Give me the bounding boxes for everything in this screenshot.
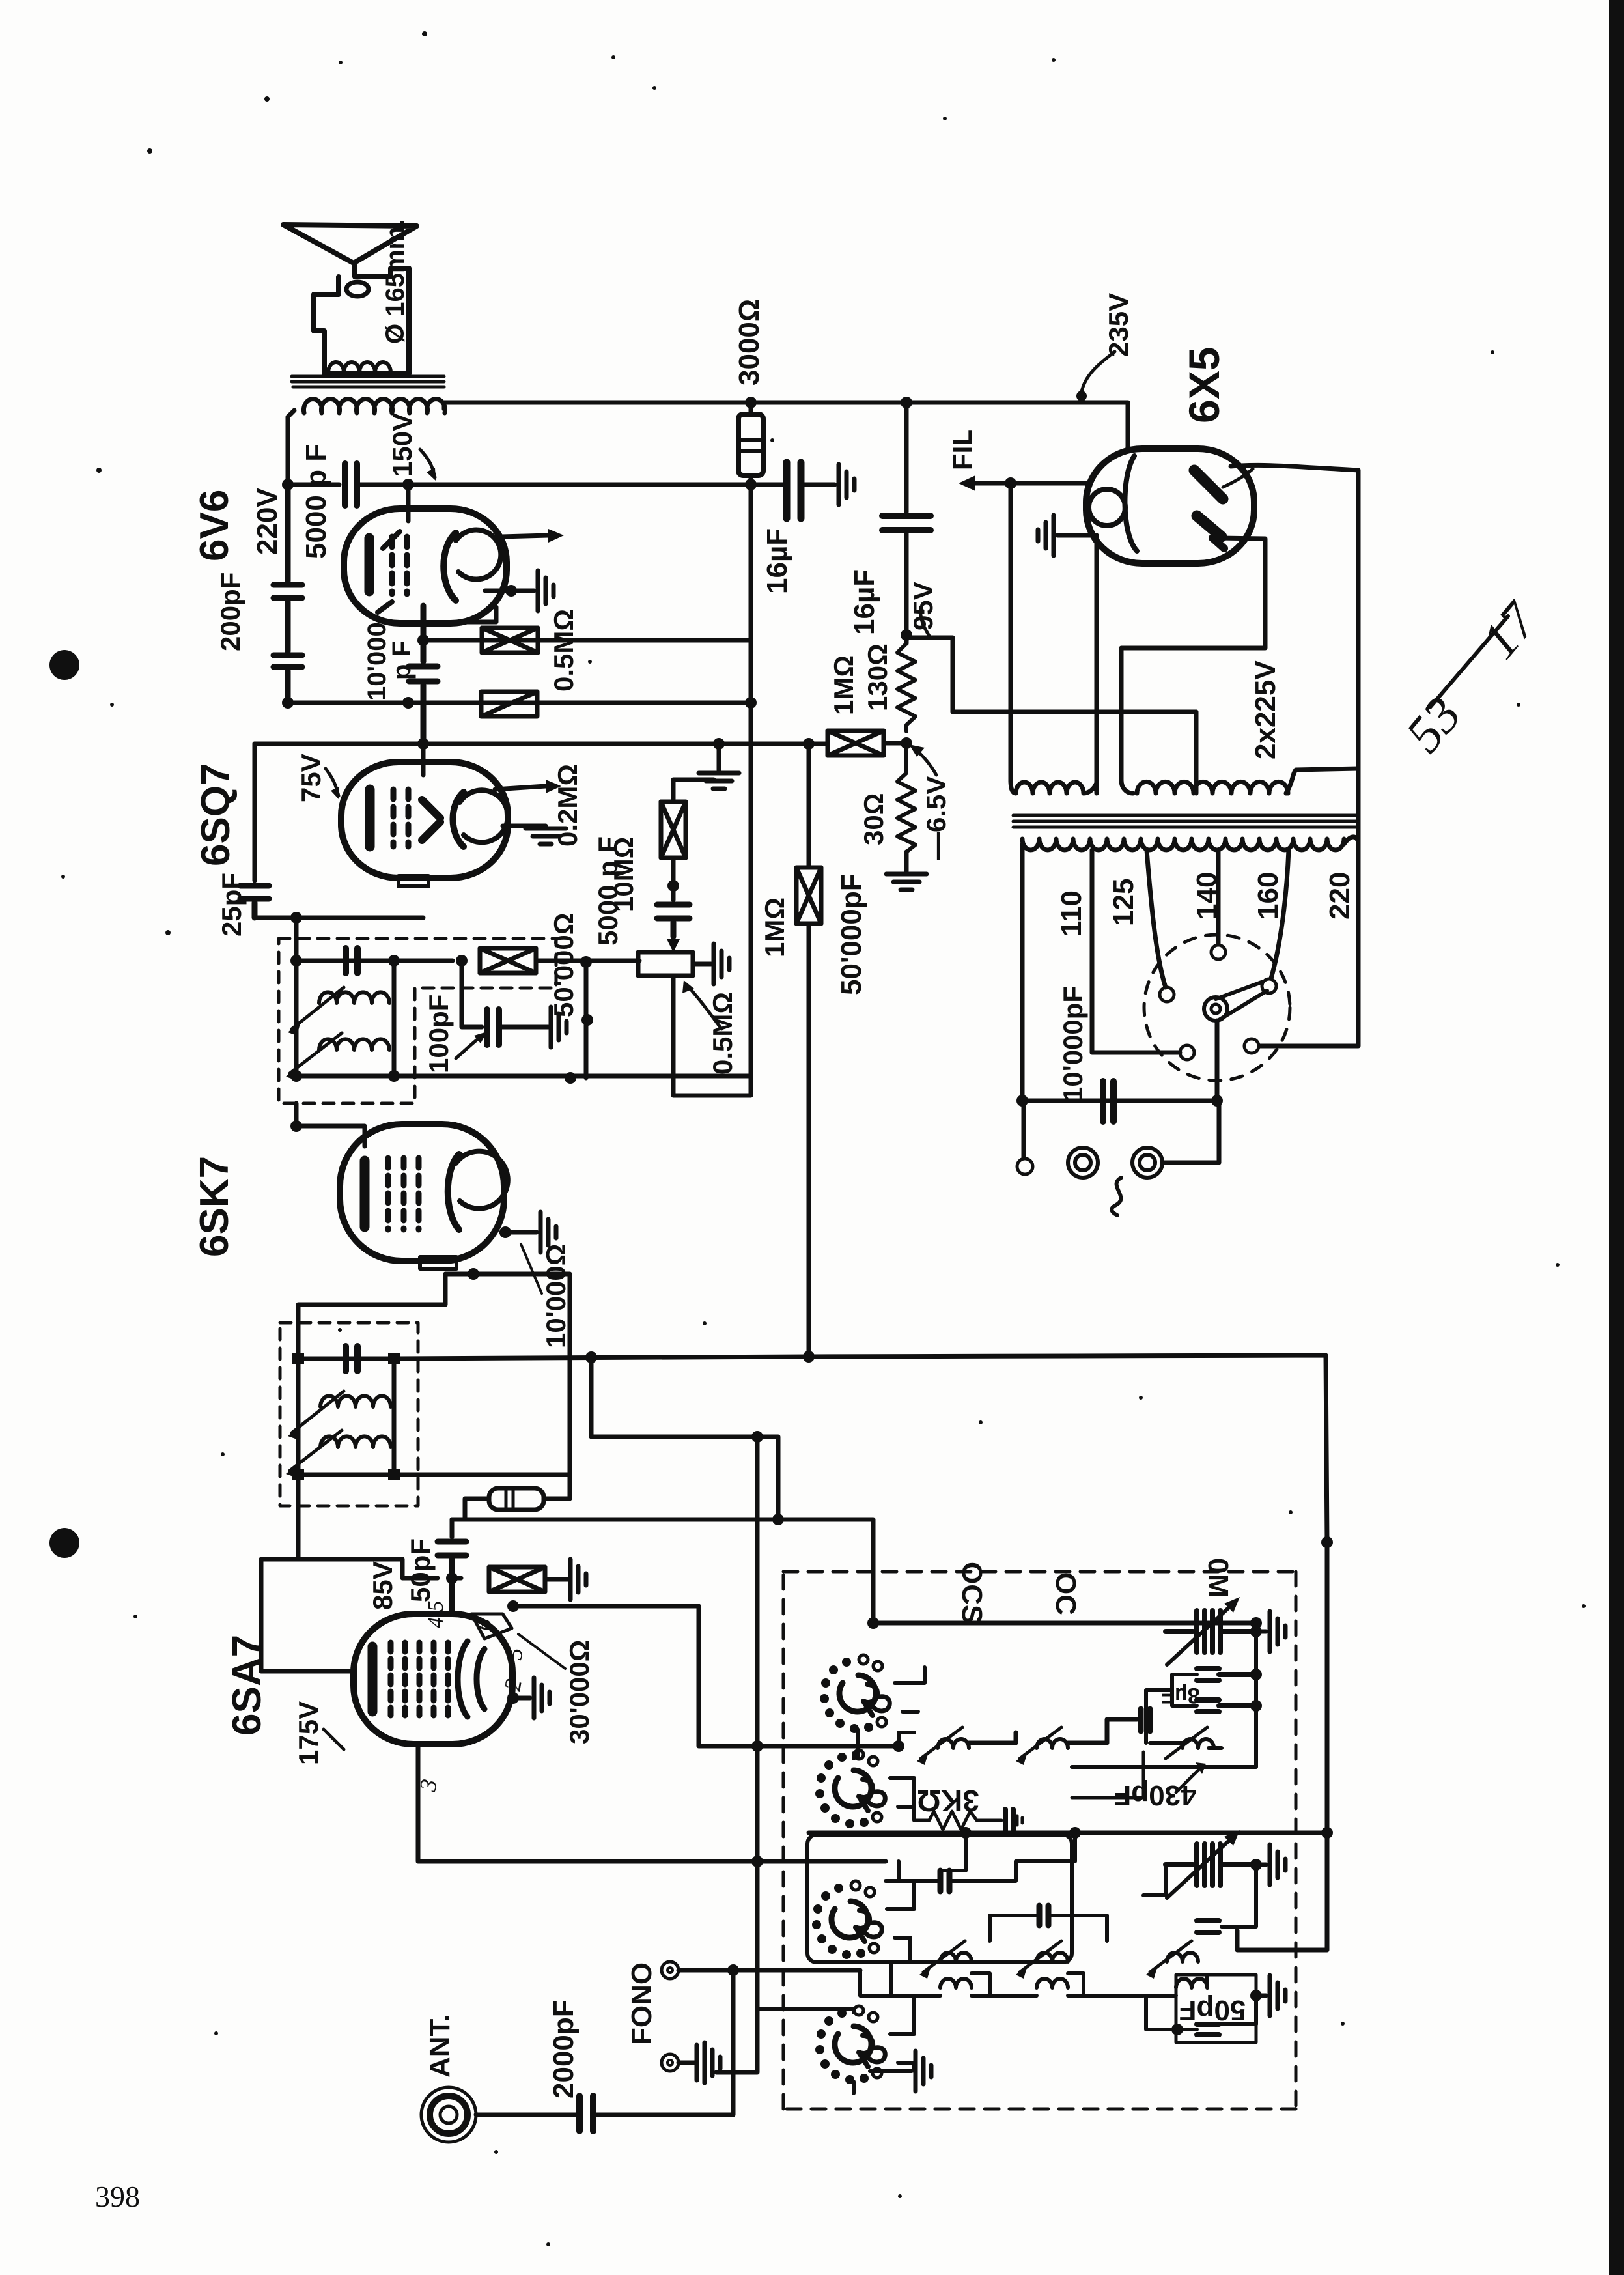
node 1409: [290, 912, 302, 924]
tube 6SQ7 plate: [453, 792, 464, 847]
wire tap 160: [1271, 850, 1289, 978]
speaker LS1 magnet frame: [314, 264, 409, 374]
svg-text:1MΩ: 1MΩ: [828, 655, 859, 715]
terminal ANT mid: [430, 2096, 468, 2134]
tube 6SQ7 tab: [399, 876, 428, 886]
tube 6SK7 anode ring: [456, 1152, 508, 1209]
tube 6SQ7 envelope: [341, 762, 508, 878]
trimmer caps 430 stack 2: [1197, 1700, 1256, 1712]
node bias top: [901, 629, 912, 641]
wire IF2 bottom to AF line: [394, 1074, 751, 1079]
speaker LS1 cone: [283, 225, 417, 263]
capacitor IF2 top: [346, 948, 357, 973]
wire 5000pF to 3000 node: [357, 483, 788, 487]
resistor 130 zigzag: [897, 643, 916, 731]
wire tuner mesh c: [733, 1970, 891, 2013]
node 10M bottom: [667, 880, 679, 892]
svg-text:50'000Ω: 50'000Ω: [548, 913, 579, 1017]
capacitor 5000pF AF: [657, 905, 690, 937]
wire pot to ground: [693, 962, 711, 967]
node IF2 br: [388, 1070, 400, 1082]
wire wafer1 stubs: [895, 1667, 925, 1712]
svg-text:6X5: 6X5: [1180, 347, 1228, 423]
node pot branch bottom: [565, 1072, 576, 1084]
tube 6X5 plate 1: [1194, 470, 1223, 499]
capacitor 200pF: [273, 485, 302, 703]
transformer T2 mains winding: [1022, 839, 1344, 850]
wire wafer4 stubs: [890, 1996, 914, 2071]
svg-text:5000 p F: 5000 p F: [593, 836, 623, 946]
wire plate2 to HV: [1121, 538, 1265, 782]
svg-text:50'000pF: 50'000pF: [835, 873, 867, 995]
wire 6X5 ground stub: [1057, 533, 1097, 538]
wire coupling y2333: [452, 1519, 873, 1623]
wire 6X5 cathode left: [1011, 481, 1089, 486]
wire tuner mesh a: [899, 1833, 1075, 1881]
output transformer T1 core: [292, 376, 444, 387]
arrow coil A: [921, 1727, 962, 1759]
svg-text:100pF: 100pF: [423, 995, 454, 1073]
svg-text:398: 398: [95, 2180, 140, 2213]
capacitor mixer grid: [940, 1871, 949, 1891]
wire IF2 sec top to 50000 resistor: [394, 959, 453, 963]
tube 6SQ7 heater arrow: [495, 786, 546, 789]
wire 16uF2 bottom: [904, 530, 909, 643]
resistor 0.5M diag: [481, 692, 537, 716]
wire HV right end: [1286, 769, 1358, 793]
tube 6SQ7 grid: [393, 789, 408, 847]
wire AVC bus y1142: [255, 742, 827, 746]
wire HV center tap: [1194, 712, 1199, 793]
node OCS end: [1250, 1617, 1262, 1629]
capacitor 16uF filter2: [882, 516, 931, 530]
svg-text:125: 125: [1108, 879, 1140, 926]
wire tuner mesh b: [891, 1962, 1143, 1996]
wire 50000 to pot top: [536, 959, 639, 963]
wire volume top vertical: [807, 744, 811, 866]
node OCS left: [867, 1617, 879, 1629]
svg-text:110: 110: [1056, 890, 1087, 937]
svg-text:0.2MΩ: 0.2MΩ: [552, 764, 583, 847]
wire pot branch down: [584, 962, 589, 1078]
wire 30000 to ground: [545, 1577, 568, 1582]
node IF1 tr: [388, 1353, 400, 1364]
wire screen to right: [513, 1606, 899, 1746]
resistor 10M: [673, 780, 714, 799]
switch wafer S1c: [812, 1881, 882, 1959]
ground 6V6 cathode: [538, 571, 553, 611]
node 6SK7 cathode: [468, 1268, 479, 1280]
coil band A2 sec: [940, 1979, 972, 1988]
wire 6SA7 anode ground: [513, 1696, 530, 1701]
coil osc B primary: [1037, 1739, 1068, 1748]
wire ANT to cap: [476, 2113, 576, 2117]
node ANT joins: [727, 1964, 739, 1976]
svg-text:200pF: 200pF: [215, 572, 245, 651]
arrow coil B: [1020, 1727, 1061, 1759]
wire wafer2 stubs: [890, 1778, 914, 1820]
arrow IF1 secondary: [290, 1430, 342, 1471]
tube 6X5 plate 2: [1197, 516, 1222, 537]
ground pot: [714, 944, 729, 984]
node IF2 tl: [290, 955, 302, 967]
coil band B2 sec: [1037, 1979, 1068, 1988]
coil osc C primary: [1183, 1739, 1214, 1748]
node AVC ground: [713, 738, 725, 750]
node 3000 top: [745, 397, 757, 408]
capacitor 10000pF mains: [1103, 1081, 1113, 1122]
dashed box tuner unit: [783, 1572, 1296, 2109]
resistor 30000: [489, 1567, 545, 1592]
wire AF vertical x1153: [673, 485, 751, 1095]
wire mixer cap: [886, 1861, 1016, 1881]
wire wafer1 drop: [854, 1730, 858, 1759]
node OM b: [1250, 1669, 1262, 1680]
wire right drop x2088: [1259, 470, 1358, 1046]
svg-text:30'000Ω: 30'000Ω: [564, 1640, 595, 1744]
tube 6SK7 envelope: [340, 1124, 504, 1261]
tube 6V6 cathode: [365, 538, 374, 591]
node IF2 tr: [388, 955, 400, 967]
node crossing x1163: [751, 1740, 763, 1752]
wire B+ into 6X5: [1126, 403, 1130, 451]
node 2368: [1321, 1536, 1333, 1548]
wire 1M vert down to bus: [807, 925, 811, 1357]
resistor 0.5M grid leak: [482, 628, 538, 653]
switch wafer S1b: [815, 1750, 885, 1828]
punch mark upper: [49, 650, 79, 680]
node pot branch top: [580, 956, 592, 968]
node 16uF2 top: [901, 397, 912, 408]
wire IF1 top: [298, 1357, 394, 1361]
capacitor 50pF tuner: [1197, 2024, 1219, 2035]
arrow 95V: [921, 607, 930, 637]
svg-text:30Ω: 30Ω: [858, 793, 889, 845]
switch wafer S1d: [815, 2006, 885, 2084]
wire tap 140: [1216, 850, 1221, 944]
box oscillator coils rounded: [807, 1835, 1072, 1962]
wire CT link: [906, 638, 1196, 712]
wire tap 110: [1092, 850, 1180, 1053]
node OM c: [1250, 1700, 1262, 1712]
svg-text:16µF: 16µF: [848, 569, 880, 635]
contact 160: [1262, 979, 1276, 993]
wire IF2 top: [296, 918, 394, 961]
node bus end: [745, 697, 757, 709]
svg-text:235V: 235V: [1103, 293, 1134, 357]
capacitor 3K end: [1005, 1809, 1013, 1831]
wire IF2 bottom: [296, 961, 394, 1076]
svg-text:0M: 0M: [1202, 1558, 1234, 1598]
wire 6SQ7 box left to 6SK7 grid: [296, 1103, 365, 1146]
wire mains right hook: [1344, 837, 1358, 844]
svg-text:25pF: 25pF: [216, 873, 247, 937]
svg-text:6SQ7: 6SQ7: [193, 763, 238, 866]
line annotation 10000: [521, 1244, 542, 1293]
terminal ANT inner: [440, 2106, 457, 2123]
tube 6V6 heater arrow: [501, 535, 548, 537]
contact 110: [1180, 1045, 1194, 1060]
capacitor pad B: [1141, 1709, 1150, 1731]
ground 16uF1: [839, 464, 854, 505]
contact 125: [1160, 987, 1174, 1002]
node FIL: [1005, 477, 1016, 489]
trimmer OC: [1166, 1844, 1252, 1886]
wire mid2: [990, 1915, 1107, 1941]
node y2333: [772, 1514, 784, 1525]
wire 6V6 cathode to ground: [485, 589, 534, 593]
wire 6SK7 suppressor ground: [501, 1230, 537, 1235]
line annotation 30000: [518, 1634, 565, 1669]
node z-tap: [585, 1351, 597, 1363]
ground AVC: [717, 744, 721, 770]
node IF2 bl: [290, 1070, 302, 1082]
wire B+ from transformer to 6X5 plate: [444, 403, 1128, 409]
svg-text:50pF: 50pF: [405, 1538, 436, 1602]
transformer T2 heater winding: [1011, 780, 1097, 793]
box 430 outline: [1072, 1752, 1143, 1798]
tube 6X5 heater curve: [1125, 456, 1137, 551]
wire FIL arrow: [968, 481, 1089, 486]
wire long vertical x1163: [716, 1437, 757, 2072]
wire heater right leg: [1095, 535, 1099, 793]
svg-text:220V: 220V: [251, 488, 283, 555]
arrow band A2: [923, 1941, 965, 1972]
resistor 3000 body: [738, 414, 763, 475]
wire 16uF2 column: [904, 403, 909, 512]
squiggle coil C: [1150, 1743, 1222, 1748]
punch mark lower: [49, 1528, 79, 1558]
tube 6V6 internal leads: [378, 531, 400, 612]
ground 6SQ7: [525, 828, 566, 844]
node 6V6 cathode: [505, 585, 517, 597]
svg-text:6V6: 6V6: [192, 490, 237, 561]
capacitor IF1 top: [346, 1346, 357, 1371]
svg-text:p F: p F: [387, 641, 416, 680]
tube 6SA7 anode arcs: [458, 1641, 484, 1717]
wire hub down: [1215, 1021, 1220, 1101]
coil ant C primary: [1167, 1953, 1198, 1962]
arrow 430pF: [1176, 1769, 1199, 1792]
capacitor 5000pF: [345, 464, 357, 505]
trimmer OM: [1166, 1611, 1252, 1652]
wire AF bus y1079: [288, 701, 751, 705]
wire 6V6 plate lead: [406, 485, 411, 521]
wire 100pF: [462, 961, 482, 1027]
wire 3000 leads: [749, 403, 753, 485]
node 3000 bottom: [745, 479, 757, 490]
svg-text:Ø 165mm.: Ø 165mm.: [381, 219, 410, 344]
svg-text:6SA7: 6SA7: [225, 1635, 270, 1736]
ground 6SK7: [540, 1212, 556, 1252]
arrow 100pF: [456, 1037, 481, 1058]
svg-text:0.5MΩ: 0.5MΩ: [707, 992, 738, 1075]
node 50pF: [1171, 2024, 1183, 2035]
tube 6V6 tab: [462, 607, 496, 622]
terminal ANT outer: [421, 2087, 476, 2142]
arrow trimmer OC: [1167, 1837, 1233, 1898]
transformer T2 HV winding 2x225V: [1121, 780, 1288, 793]
switch wafer S1a: [820, 1655, 889, 1733]
wire 430 left column: [1146, 1674, 1197, 1743]
svg-text:50pF: 50pF: [1179, 1994, 1246, 2026]
tube 6SK7 tab: [420, 1257, 456, 1269]
svg-text:160: 160: [1252, 872, 1284, 920]
node x1242: [803, 738, 815, 750]
wire mains left leg: [1020, 844, 1025, 1101]
svg-text:6SK7: 6SK7: [192, 1156, 237, 1257]
tube 6SK7 cathode: [360, 1161, 370, 1227]
wire grid lead 6SQ7: [421, 744, 426, 775]
transformer T2 core: [1013, 815, 1356, 827]
handwriting 53/17 slash: [1430, 616, 1508, 707]
wire IF1 fb: [394, 1473, 570, 1477]
svg-text:OCS: OCS: [956, 1562, 988, 1624]
node z2: [751, 1431, 763, 1443]
arrow 0.5M pot: [689, 987, 721, 1029]
svg-text:140: 140: [1191, 872, 1223, 920]
wire 6SK7 plate Z: [591, 1357, 778, 1519]
arrow 235V: [1082, 352, 1115, 392]
coil IF2 secondary: [319, 1039, 389, 1050]
dashed box IF transformer 1: [280, 1323, 418, 1506]
wire B bus y2083: [394, 1355, 1327, 1832]
capacitor 50pF: [438, 1542, 466, 1610]
node g50: [1250, 1990, 1262, 2001]
resistor 1M horizontal: [828, 731, 884, 756]
arrow 150V: [420, 449, 435, 477]
node 5000pF left: [282, 479, 294, 490]
node osc crossing: [751, 1856, 763, 1867]
wire 6SQ7 grid loop: [253, 744, 257, 881]
dashed box IF transformer 2: [279, 939, 556, 1103]
output transformer T1 primary coil: [304, 399, 445, 413]
wire OM column: [1072, 1622, 1256, 1767]
wire IF1 left down: [261, 1475, 402, 1671]
arrow IF2 secondary core: [290, 1033, 342, 1073]
wire 16uF1: [751, 483, 835, 487]
tube 6SQ7 cathode: [365, 789, 375, 847]
tube 6X5 plate 2 tail: [1212, 538, 1224, 548]
arrow coil C: [1166, 1727, 1207, 1759]
rotary switch dashed circle: [1144, 935, 1290, 1081]
node osc c: [1321, 1827, 1333, 1839]
resistor 30 zigzag: [897, 743, 916, 852]
tube 6SK7 grids: [388, 1158, 419, 1230]
wire 10M to 5000pF: [671, 860, 676, 900]
node IF1 br: [388, 1469, 400, 1480]
node plug right: [1211, 1095, 1223, 1107]
wire coil B link: [1068, 1719, 1137, 1743]
svg-text:FONO: FONO: [626, 1962, 658, 2045]
contact 140: [1211, 945, 1225, 959]
node 100pF tap: [456, 955, 468, 967]
speaker LS1 coil: [328, 362, 391, 373]
svg-text:130Ω: 130Ω: [862, 643, 893, 711]
wire 6SK7 avc feedback: [473, 1274, 570, 1475]
wire heater drop: [1009, 483, 1013, 782]
svg-text:OC: OC: [1050, 1572, 1082, 1615]
symbol AC squiggle: [1112, 1178, 1121, 1215]
svg-text:1MΩ: 1MΩ: [759, 897, 790, 957]
svg-text:85V: 85V: [367, 1561, 398, 1610]
ground OC: [1256, 1863, 1266, 1867]
arrowhead FIL: [959, 475, 975, 491]
wire wafer3 stubs: [887, 1881, 923, 1962]
ground 6X5: [1038, 515, 1054, 556]
coil band B2: [1037, 1953, 1068, 1962]
tube 6SK7 plate: [448, 1154, 459, 1230]
node bias mid: [901, 737, 912, 749]
terminal plug pin A: [1068, 1148, 1098, 1178]
node 6SA7 screen: [507, 1600, 519, 1612]
svg-text:—6.5V: —6.5V: [921, 776, 951, 860]
wire OC link: [1143, 1865, 1256, 1927]
trimmer caps 430 stack 1: [1197, 1669, 1256, 1680]
tube 6SA7 envelope: [354, 1614, 512, 1744]
ground 30000: [570, 1559, 586, 1600]
node OC: [1250, 1859, 1262, 1871]
node OM: [1250, 1626, 1262, 1637]
svg-text:3000Ω: 3000Ω: [733, 299, 765, 386]
svg-text:16µF: 16µF: [761, 528, 793, 594]
ground OM: [1256, 1630, 1266, 1634]
node plug left: [1016, 1095, 1028, 1107]
node pot branch mid: [581, 1014, 593, 1026]
label pin 6 flag: [471, 1614, 512, 1639]
ground 6SA7 anode: [534, 1678, 550, 1718]
capacitor 25pF: [240, 886, 269, 918]
switch wiper arm: [1216, 982, 1267, 1020]
node 6SA7 grid: [446, 1572, 458, 1584]
tube 6SA7 grids: [391, 1643, 448, 1716]
coil osc A primary: [938, 1739, 969, 1748]
arrow IF1 primary: [292, 1391, 344, 1433]
svg-text:175V: 175V: [293, 1701, 324, 1765]
svg-text:ANT.: ANT.: [424, 2014, 456, 2078]
capacitor 10000pF cathode: [409, 606, 438, 744]
tube 6SA7 cathode: [368, 1646, 378, 1712]
wire coil A link: [969, 1732, 1016, 1743]
wire plate node: [288, 483, 339, 487]
node 6V6 plate: [402, 479, 414, 490]
tube 6V6 envelope: [344, 509, 507, 623]
terminal FONO2: [662, 2054, 679, 2071]
stub 3K ground: [1017, 1816, 1022, 1825]
resistor 3K zigzag: [914, 1811, 1001, 1830]
node IF1 bl: [292, 1469, 304, 1480]
coil IF2 primary: [319, 992, 389, 1003]
ground bias: [904, 852, 909, 871]
node 6V6 grid: [417, 634, 429, 646]
capacitor OC pad: [1197, 1921, 1219, 1932]
tube 6V6 beam electrode: [456, 530, 501, 580]
scan edge black strip: [1609, 0, 1624, 2275]
arrow into pot: [671, 937, 675, 943]
switch hub: [1204, 997, 1227, 1021]
arrow trimmer OM: [1167, 1604, 1233, 1665]
capacitor 100pF: [487, 1010, 499, 1045]
wire ant sec links: [1146, 1975, 1256, 2029]
tube 6V6 plate: [443, 533, 456, 601]
capacitor 16uF filter1: [787, 462, 801, 518]
svg-text:10'000pF: 10'000pF: [1057, 986, 1088, 1102]
wire 50pF top feed: [450, 1519, 455, 1537]
terminal plug pin B: [1132, 1148, 1162, 1178]
resistor 1M vertical: [796, 868, 821, 924]
coil IF1 secondary: [320, 1436, 391, 1447]
wire padder link: [899, 1732, 914, 1746]
